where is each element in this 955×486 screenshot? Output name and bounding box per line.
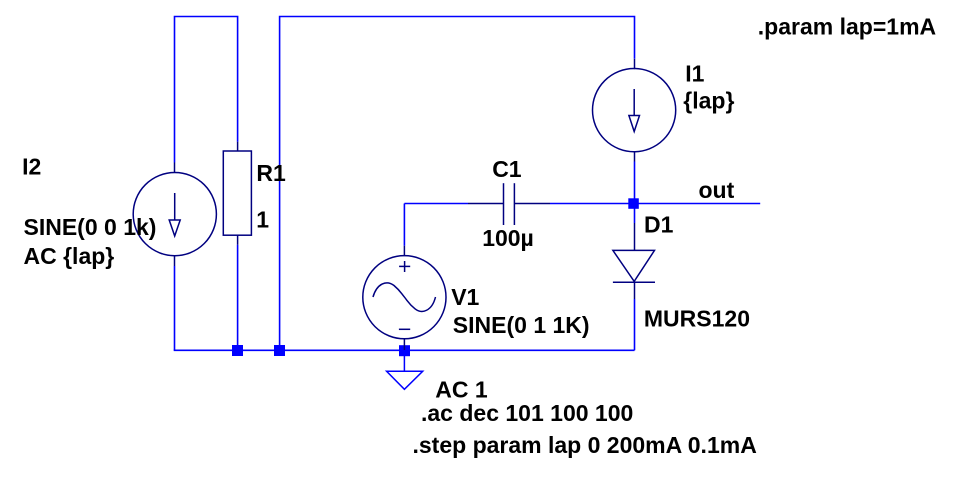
svg-text:.ac dec 101 100 100: .ac dec 101 100 100: [421, 400, 633, 426]
wire I2 bottom to rail: [174, 266, 176, 350]
svg-text:1: 1: [256, 207, 269, 233]
junction node out: [628, 198, 639, 209]
wire D1 top stub: [634, 204, 636, 224]
wire V1 top stub: [403, 204, 405, 246]
voltage source V1: [363, 246, 446, 350]
wire I1 bottom to out node: [634, 162, 636, 204]
junction node R1/rail: [232, 345, 243, 356]
svg-text:I1: I1: [685, 61, 704, 87]
svg-text:SINE(0 1 1K): SINE(0 1 1K): [453, 312, 590, 338]
ground: [387, 355, 423, 389]
wire top-right loop horizontal: [280, 17, 635, 351]
svg-text:I2: I2: [22, 154, 41, 180]
svg-text:AC {lap}: AC {lap}: [24, 243, 115, 269]
current source I1: [593, 59, 676, 162]
svg-text:.param lap=1mA: .param lap=1mA: [758, 13, 936, 39]
wire top-left loop horizontal: [175, 17, 238, 163]
resistor R1: [223, 142, 251, 245]
svg-text:V1: V1: [451, 284, 479, 310]
svg-text:D1: D1: [644, 212, 674, 238]
wire R1 bottom to rail: [237, 245, 239, 350]
junction node V1/rail: [399, 345, 410, 356]
svg-text:R1: R1: [256, 160, 286, 186]
svg-text:out: out: [699, 177, 735, 203]
wire out horizontal right of C1: [550, 203, 760, 205]
current source I2: [133, 163, 216, 267]
wire bottom rail: [174, 349, 635, 351]
svg-text:.step param lap 0 200mA 0.1mA: .step param lap 0 200mA 0.1mA: [413, 432, 757, 458]
svg-text:{lap}: {lap}: [683, 88, 734, 114]
svg-text:SINE(0 0 1k): SINE(0 0 1k): [24, 214, 157, 240]
wire out horizontal left of C1: [404, 203, 468, 205]
svg-text:AC 1: AC 1: [435, 377, 488, 403]
junction node x280/rail: [274, 345, 285, 356]
svg-text:100µ: 100µ: [482, 225, 534, 251]
svg-text:C1: C1: [492, 156, 522, 182]
capacitor C1: [468, 183, 550, 225]
diode D1: [613, 223, 655, 299]
wire D1 bottom stub: [634, 299, 636, 350]
svg-text:MURS120: MURS120: [644, 306, 750, 332]
